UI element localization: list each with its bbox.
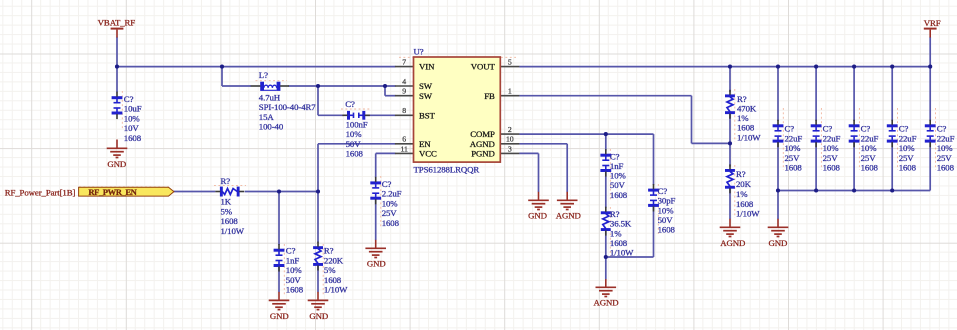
- svg-text:C?: C?: [286, 246, 296, 256]
- svg-text:20K: 20K: [736, 179, 752, 189]
- svg-text:1608: 1608: [737, 123, 755, 133]
- dashed guide C 22uF #1: [782, 108, 784, 170]
- svg-text:100-40: 100-40: [259, 122, 284, 132]
- junction inductor tap: [220, 65, 224, 69]
- junction bottom C2: [814, 188, 818, 192]
- wire bottom node to AGND: [605, 257, 607, 279]
- svg-text:GND: GND: [528, 210, 547, 220]
- svg-text:SW: SW: [419, 81, 433, 91]
- IC U1 body: [414, 57, 501, 162]
- ground GND below C 10uF: [116, 140, 118, 149]
- junction rail C4: [890, 65, 894, 69]
- wire C 22uF #5 bottom: [929, 142, 931, 190]
- wire C 22uF #2 top: [815, 67, 817, 121]
- svg-text:1608: 1608: [610, 238, 628, 248]
- dashed guide IC pin5: [501, 56, 516, 58]
- svg-text:22uF: 22uF: [823, 133, 841, 143]
- svg-text:AGND: AGND: [470, 139, 495, 149]
- svg-text:10%: 10%: [658, 205, 675, 215]
- svg-text:RF_PWR_EN: RF_PWR_EN: [88, 187, 137, 197]
- svg-text:L?: L?: [259, 70, 268, 80]
- svg-text:VRF: VRF: [924, 18, 941, 28]
- svg-text:1nF: 1nF: [610, 161, 624, 171]
- wire C 22uF #5 top: [929, 67, 931, 121]
- wire bottom rail to GND: [777, 191, 779, 220]
- wire SW pin9 drop: [384, 86, 386, 96]
- wire C 22uF #1 bottom: [777, 142, 779, 190]
- wire C 2.2uF to GND: [375, 199, 377, 240]
- svg-text:10%: 10%: [610, 171, 627, 181]
- junction rail C1: [776, 65, 780, 69]
- svg-text:50V: 50V: [346, 139, 362, 149]
- dashed guide BST cap: [341, 108, 371, 110]
- svg-text:25V: 25V: [823, 153, 839, 163]
- junction C1nF tap: [277, 189, 281, 193]
- svg-text:25V: 25V: [785, 153, 801, 163]
- svg-text:1/10W: 1/10W: [737, 132, 761, 142]
- svg-text:1/10W: 1/10W: [221, 226, 245, 236]
- svg-text:1608: 1608: [124, 133, 142, 143]
- svg-text:GND: GND: [270, 311, 289, 321]
- wire output bottom rail: [778, 190, 930, 192]
- capacitor C 1nF (left): [274, 249, 285, 252]
- ground AGND comp network: [605, 279, 607, 287]
- dashed guide R 1K: [214, 185, 246, 187]
- wire VOUT rail: [519, 66, 930, 68]
- dashed guide C 22uF #2: [820, 108, 822, 170]
- dashed guide R 220K: [322, 244, 324, 296]
- junction VBAT/C10uF: [115, 65, 119, 69]
- junction EN/RC: [316, 189, 320, 193]
- svg-text:C?: C?: [382, 179, 392, 189]
- svg-text:C?: C?: [937, 124, 947, 134]
- dashed guide C 1nF comp: [609, 149, 611, 200]
- svg-text:1608: 1608: [861, 163, 879, 173]
- wire C 1nF to R 36.5K: [605, 172, 607, 209]
- svg-text:15A: 15A: [259, 112, 275, 122]
- dashed guide R 36.5K: [609, 207, 611, 258]
- wire C 22uF #4 bottom: [891, 142, 893, 190]
- dashed guide R 20K: [734, 165, 736, 218]
- svg-text:470K: 470K: [737, 104, 757, 114]
- svg-text:1/10W: 1/10W: [324, 285, 348, 295]
- junction bottom rail GND: [776, 188, 780, 192]
- wire drop to R 220K: [317, 192, 319, 243]
- svg-text:2.2uF: 2.2uF: [382, 189, 402, 199]
- junction bottom C4: [890, 188, 894, 192]
- dashed guide inductor: [256, 80, 288, 82]
- svg-text:1608: 1608: [899, 163, 917, 173]
- svg-text:2: 2: [508, 125, 512, 134]
- wire branch to inductor: [221, 67, 223, 86]
- svg-text:1608: 1608: [823, 163, 841, 173]
- svg-text:1608: 1608: [221, 216, 239, 226]
- svg-text:4.7uH: 4.7uH: [259, 92, 281, 102]
- svg-text:PGND: PGND: [471, 149, 495, 159]
- svg-text:R?: R?: [737, 94, 747, 104]
- svg-text:GND: GND: [107, 159, 126, 169]
- svg-text:C?: C?: [658, 186, 668, 196]
- wire COMP to C 30pF: [653, 134, 655, 185]
- port RF_PWR_EN: [79, 187, 174, 196]
- wire R 20K to AGND: [729, 189, 731, 220]
- svg-text:10%: 10%: [823, 143, 840, 153]
- junction FB divider top: [728, 65, 732, 69]
- ground GND output rail: [777, 219, 779, 228]
- wire R 36.5K to bottom node: [605, 231, 607, 257]
- wire R 1K to junctions: [245, 191, 318, 193]
- svg-text:VOUT: VOUT: [471, 62, 496, 72]
- svg-text:R?: R?: [324, 246, 334, 256]
- svg-text:22uF: 22uF: [861, 133, 879, 143]
- wire COMP horizontal: [519, 133, 653, 135]
- ground GND below C 2.2uF: [375, 240, 377, 249]
- svg-text:1608: 1608: [785, 163, 803, 173]
- wire COMP to C 1nF: [605, 134, 607, 150]
- wire VBAT to C 10uF: [116, 67, 118, 93]
- capacitor C 1nF (comp): [600, 154, 611, 157]
- wire C 30pF to bottom node: [653, 207, 655, 258]
- svg-text:TPS61288LRQQR: TPS61288LRQQR: [414, 164, 480, 174]
- svg-text:5%: 5%: [324, 265, 336, 275]
- dashed guide VBAT cap: [121, 91, 123, 129]
- svg-text:U?: U?: [414, 47, 424, 57]
- resistor R 36.5K: [601, 211, 611, 214]
- dashed guide C 22uF #3: [858, 108, 860, 170]
- svg-text:VIN: VIN: [419, 62, 435, 72]
- dashed guide C 1nF left: [283, 244, 285, 296]
- svg-text:50V: 50V: [658, 215, 674, 225]
- wire R 470K to FB node: [729, 114, 731, 143]
- svg-text:22uF: 22uF: [899, 133, 917, 143]
- svg-text:GND: GND: [769, 238, 788, 248]
- svg-text:6: 6: [402, 135, 406, 144]
- junction rail C3: [852, 65, 856, 69]
- svg-text:1/10W: 1/10W: [736, 209, 760, 219]
- svg-text:1608: 1608: [324, 275, 342, 285]
- junction rail C2: [814, 65, 818, 69]
- svg-text:1608: 1608: [286, 285, 304, 295]
- svg-text:25V: 25V: [899, 153, 915, 163]
- IC U1 pin stubs left: [395, 66, 414, 68]
- svg-text:10%: 10%: [785, 143, 802, 153]
- wire AGND pin10: [519, 143, 567, 145]
- svg-text:11: 11: [401, 144, 409, 153]
- svg-text:FB: FB: [484, 91, 495, 101]
- capacitor C 22uF #4: [887, 124, 898, 127]
- dashed guide IC pin7: [399, 56, 413, 58]
- svg-text:1K: 1K: [221, 197, 232, 207]
- svg-text:10uF: 10uF: [124, 104, 142, 114]
- dashed guide C 2.2uF: [380, 176, 382, 228]
- dashed guide C 22uF #4: [897, 108, 899, 170]
- svg-text:4: 4: [402, 77, 406, 86]
- dashed guide flag: [79, 186, 169, 188]
- svg-text:100nF: 100nF: [346, 119, 368, 129]
- dashed guide C 22uF #5: [935, 108, 937, 170]
- svg-text:220K: 220K: [324, 255, 344, 265]
- junction FB mid: [728, 141, 732, 145]
- wire C 22uF #4 top: [891, 67, 893, 121]
- svg-text:10%: 10%: [124, 113, 141, 123]
- svg-text:8: 8: [402, 106, 406, 115]
- svg-text:7: 7: [402, 58, 406, 67]
- junction rail VRF: [928, 65, 932, 69]
- svg-text:10%: 10%: [937, 143, 954, 153]
- ground GND below C 1nF left: [278, 292, 280, 301]
- svg-text:SPI-100-40-4R7: SPI-100-40-4R7: [259, 102, 316, 112]
- wire SW to BST cap: [317, 86, 319, 115]
- wire EN horizontal: [318, 143, 396, 145]
- capacitor C 22uF #5: [925, 124, 936, 127]
- svg-text:VBAT_RF: VBAT_RF: [98, 18, 136, 28]
- ground GND pin3 PGND: [538, 192, 540, 201]
- svg-text:R?: R?: [610, 209, 620, 219]
- resistor R 470K: [725, 94, 735, 97]
- svg-text:1%: 1%: [610, 228, 622, 238]
- svg-text:25V: 25V: [937, 153, 953, 163]
- wire C 22uF #2 bottom: [815, 142, 817, 190]
- svg-text:1%: 1%: [737, 113, 749, 123]
- svg-text:1%: 1%: [736, 189, 748, 199]
- capacitor C 10uF: [112, 96, 123, 99]
- capacitor C 22uF #1: [773, 124, 784, 127]
- wire BST cap to pin8: [365, 114, 395, 116]
- svg-text:10%: 10%: [899, 143, 916, 153]
- svg-text:C?: C?: [124, 94, 134, 104]
- wire C 22uF #1 top: [777, 67, 779, 121]
- svg-text:AGND: AGND: [720, 238, 745, 248]
- svg-text:R?: R?: [221, 176, 231, 186]
- ground GND below R 220K: [317, 292, 319, 301]
- svg-text:5: 5: [508, 58, 512, 67]
- wire C 22uF #3 bottom: [853, 142, 855, 190]
- svg-text:3: 3: [508, 144, 512, 153]
- svg-text:36.5K: 36.5K: [610, 219, 632, 229]
- capacitor C 30pF: [648, 189, 659, 192]
- wire inductor to SW: [289, 85, 396, 87]
- IC U1 pin stubs right: [500, 66, 519, 68]
- svg-text:SW: SW: [419, 91, 433, 101]
- ground AGND below R 20K: [729, 219, 731, 228]
- svg-text:10: 10: [506, 135, 514, 144]
- svg-text:1608: 1608: [382, 218, 400, 228]
- svg-text:C?: C?: [899, 124, 909, 134]
- svg-text:22uF: 22uF: [937, 133, 955, 143]
- wire VIN rail: [117, 66, 396, 68]
- svg-text:1nF: 1nF: [286, 255, 300, 265]
- junction SW pins: [383, 84, 387, 88]
- svg-text:25V: 25V: [382, 208, 398, 218]
- wire R 220K to GND: [317, 266, 319, 293]
- wire VBAT_RF stem: [116, 37, 118, 67]
- wire C 22uF #3 top: [853, 67, 855, 121]
- svg-text:C?: C?: [823, 124, 833, 134]
- wire VOUT to R 470K: [729, 67, 731, 93]
- svg-text:1: 1: [508, 87, 512, 96]
- wire flag to R 1K: [173, 191, 216, 193]
- wire VRF stem: [929, 37, 931, 67]
- svg-text:50V: 50V: [286, 275, 302, 285]
- svg-text:GND: GND: [367, 258, 386, 268]
- junction SW/BST: [316, 84, 320, 88]
- resistor R 20K: [725, 169, 735, 172]
- svg-text:9: 9: [402, 87, 406, 96]
- capacitor C 22uF #3: [849, 124, 860, 127]
- svg-text:50V: 50V: [610, 180, 626, 190]
- capacitor C 100nF (BST): [347, 111, 350, 120]
- wire FB net: [519, 95, 691, 97]
- wire drop to C 1nF left: [278, 192, 280, 246]
- wire EN drop to enable net: [317, 144, 319, 192]
- svg-text:1608: 1608: [658, 225, 676, 235]
- capacitor C 2.2uF (VCC): [370, 181, 381, 184]
- junction COMP node: [604, 132, 608, 136]
- svg-text:1608: 1608: [610, 190, 628, 200]
- resistor R 1K: [220, 187, 223, 197]
- wire VCC to C 2.2uF: [376, 152, 396, 154]
- svg-text:C?: C?: [610, 151, 620, 161]
- svg-text:EN: EN: [419, 139, 431, 149]
- svg-text:R?: R?: [736, 169, 746, 179]
- svg-text:10%: 10%: [861, 143, 878, 153]
- svg-text:1608: 1608: [937, 163, 955, 173]
- svg-text:BST: BST: [419, 110, 436, 120]
- svg-text:1/10W: 1/10W: [610, 248, 634, 258]
- svg-text:C?: C?: [861, 124, 871, 134]
- svg-text:10V: 10V: [124, 123, 140, 133]
- dashed guide C 30pF: [657, 184, 659, 234]
- wire FB node to R 20K: [729, 143, 731, 166]
- svg-text:COMP: COMP: [470, 129, 495, 139]
- ground AGND pin10: [566, 192, 568, 201]
- svg-text:22uF: 22uF: [785, 133, 803, 143]
- svg-text:AGND: AGND: [556, 210, 581, 220]
- svg-text:25V: 25V: [861, 153, 877, 163]
- svg-text:VCC: VCC: [419, 149, 437, 159]
- wire PGND pin3: [519, 152, 538, 154]
- svg-text:1608: 1608: [736, 199, 754, 209]
- svg-text:10%: 10%: [286, 265, 303, 275]
- inductor L?: [260, 82, 264, 91]
- svg-text:10%: 10%: [382, 198, 399, 208]
- wire C 1nF left to GND: [278, 267, 280, 293]
- junction comp bottom: [604, 255, 608, 259]
- svg-text:C?: C?: [785, 124, 795, 134]
- svg-text:GND: GND: [309, 311, 328, 321]
- svg-text:30pF: 30pF: [658, 196, 676, 206]
- resistor R 220K: [313, 246, 323, 249]
- dashed guide R 470K: [734, 89, 736, 142]
- svg-text:5%: 5%: [221, 206, 233, 216]
- svg-text:RF_Power_Part[1B]: RF_Power_Part[1B]: [5, 187, 76, 197]
- capacitor C 22uF #2: [811, 124, 822, 127]
- svg-text:AGND: AGND: [593, 297, 618, 307]
- svg-text:1608: 1608: [346, 149, 364, 159]
- svg-text:10%: 10%: [346, 129, 363, 139]
- junction bottom C3: [852, 188, 856, 192]
- svg-text:C?: C?: [345, 99, 355, 109]
